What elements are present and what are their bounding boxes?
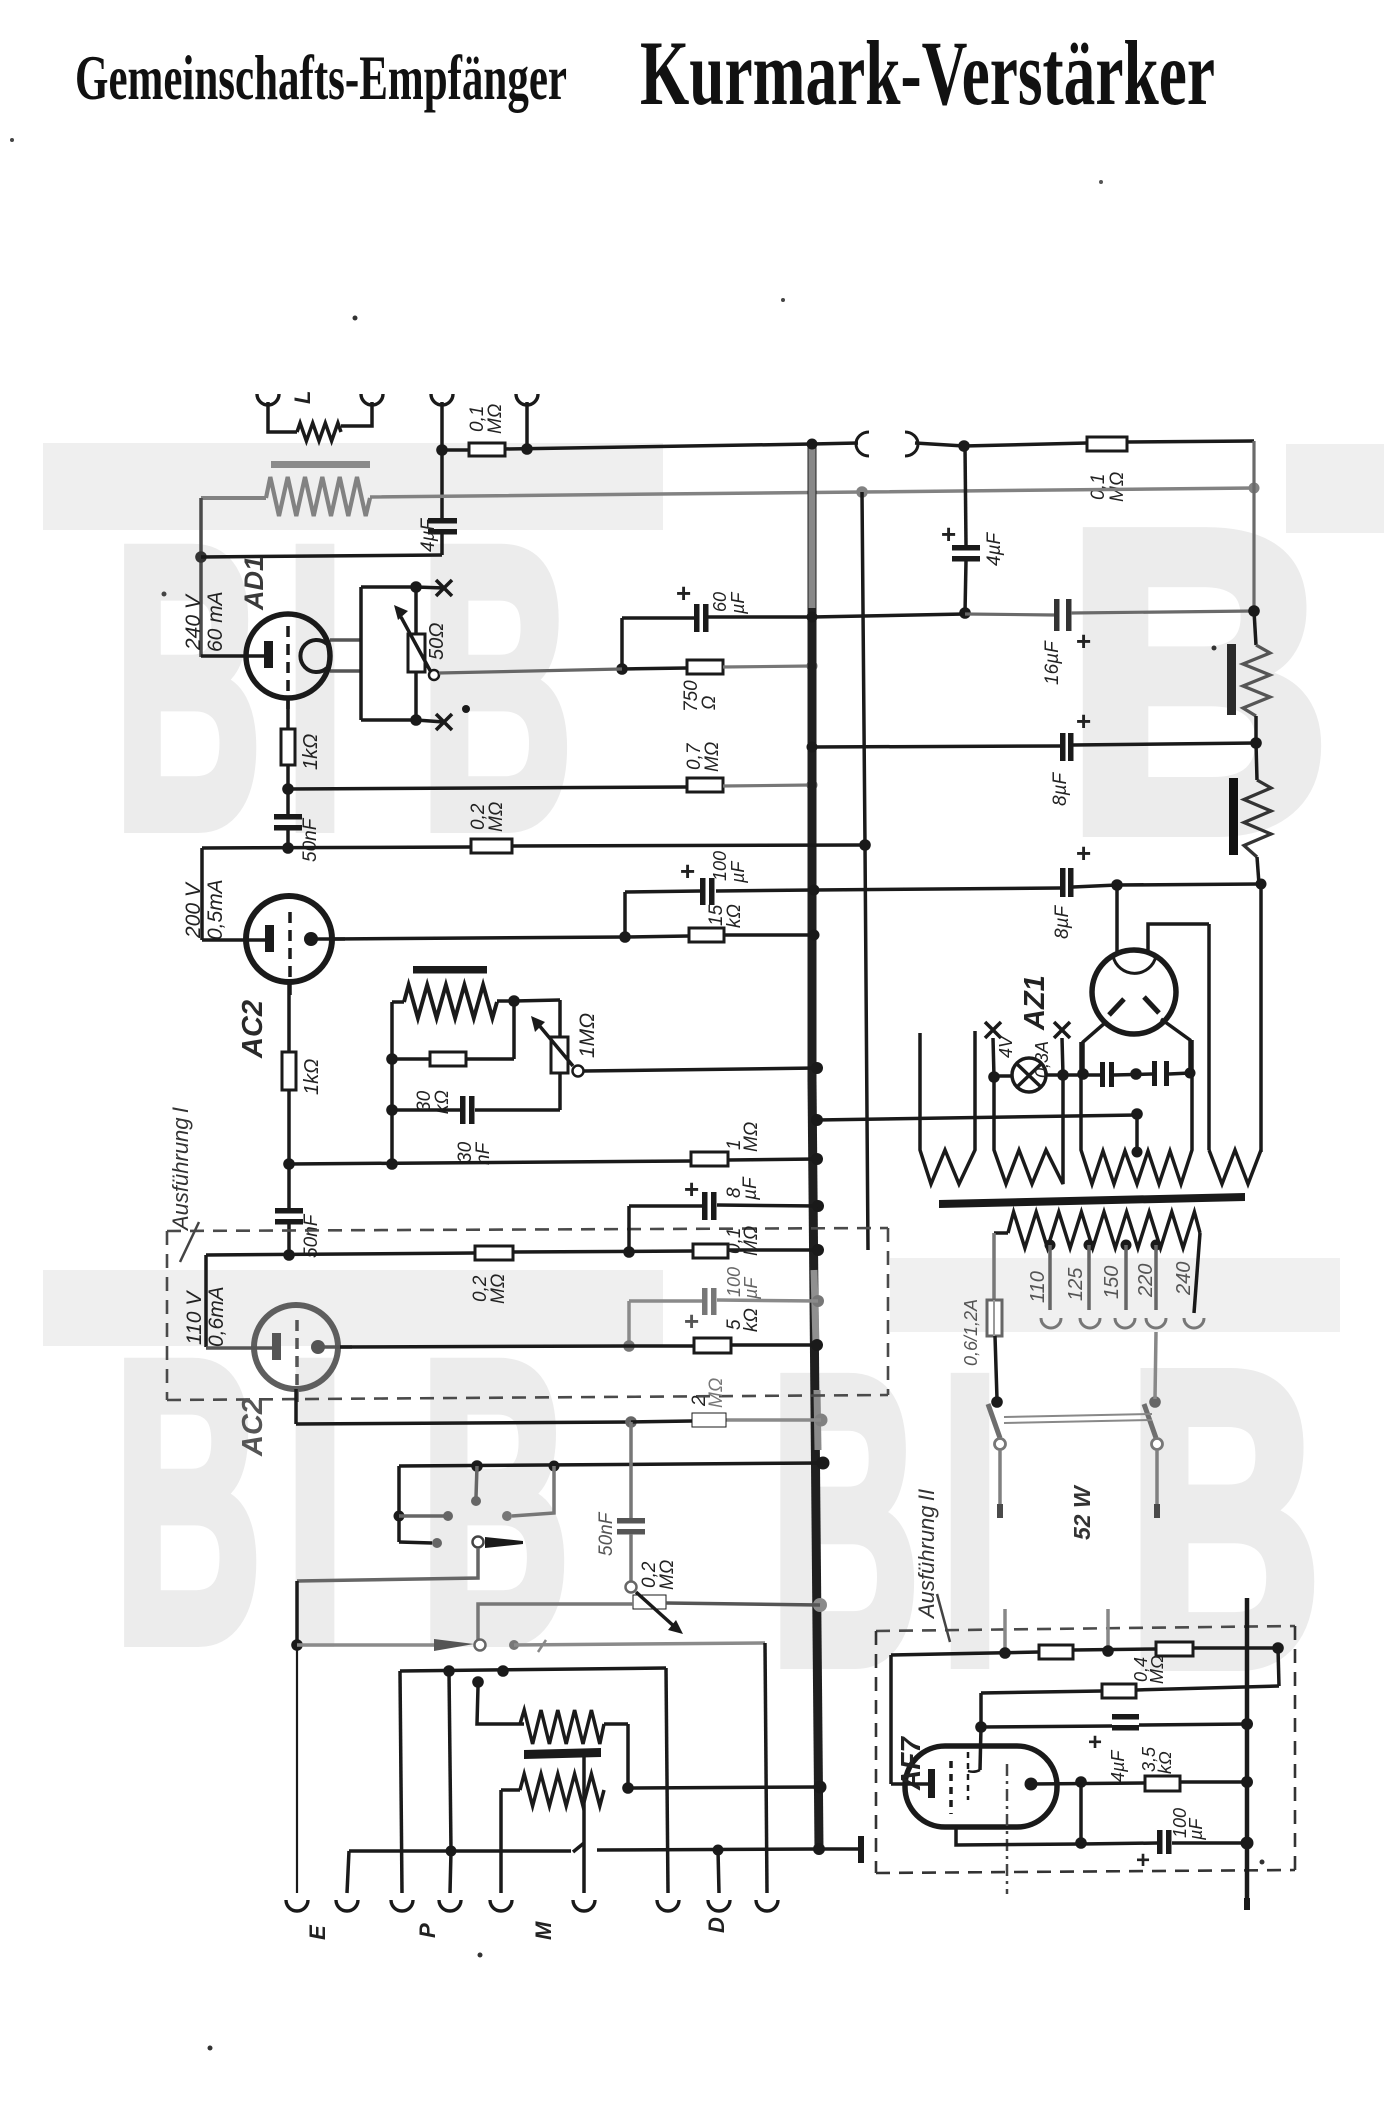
pot wiper circle: [429, 670, 439, 680]
terminal cup x668: [657, 1900, 679, 1911]
wire: [287, 1090, 291, 1164]
output transformer primary: [266, 477, 370, 516]
capacitor 100uF a: [700, 878, 706, 905]
svg-text:150: 150: [1101, 1266, 1123, 1299]
tick: [538, 1640, 546, 1652]
node: [1185, 1068, 1196, 1079]
wire: [1180, 1780, 1247, 1784]
wire row 1421: [631, 1421, 692, 1422]
wire: [287, 1164, 291, 1208]
capacitor 8uF b: [1060, 868, 1066, 897]
wire: [359, 587, 363, 720]
svg-text:MΩ: MΩ: [706, 1378, 727, 1408]
svg-text:+: +: [680, 856, 695, 886]
svg-text:1MΩ: 1MΩ: [576, 1013, 599, 1058]
resistor 15 kOhm: [689, 928, 724, 942]
lamp 4V 0,3A: [1012, 1058, 1046, 1092]
svg-text:kΩ: kΩ: [724, 904, 745, 928]
dashed box Ausfuehrung II: [876, 1626, 1295, 1631]
wire: [965, 446, 966, 545]
wire AF7 left column: [889, 1655, 893, 1784]
svg-text:Ω: Ω: [699, 696, 720, 710]
capacitor 8uF a: [1060, 733, 1066, 761]
capacitor 60uF: [694, 604, 700, 632]
wire gray row 1645 right: [514, 1643, 765, 1645]
bus node 1250: [812, 1244, 824, 1256]
capacitor 100uF AF7: [1157, 1830, 1163, 1854]
node: [1102, 1645, 1114, 1657]
wire: [718, 1850, 719, 1893]
wire: [1062, 1038, 1063, 1075]
svg-text:1kΩ: 1kΩ: [300, 734, 322, 770]
bus node 617: [807, 612, 818, 623]
wire 60uF corner: [620, 618, 624, 669]
field coil bar a: [1227, 644, 1236, 715]
primary winding a: [520, 1710, 604, 1744]
svg-text:50nF: 50nF: [301, 1213, 322, 1258]
resistor vertical b: [1244, 780, 1271, 857]
node: [386, 1104, 398, 1116]
node: [958, 440, 970, 452]
wire gray row 494: [370, 488, 1254, 497]
terminal cup x584: [573, 1900, 595, 1911]
tube AC2: [246, 896, 332, 982]
AF7 grid dashes: [949, 1761, 953, 1814]
switch lever left: [988, 1404, 1000, 1438]
wire: [1193, 1646, 1276, 1650]
potentiometer 0,2 MOhm: [633, 1595, 666, 1609]
svg-text:+: +: [941, 519, 956, 549]
wire AC2II anode row: [340, 1346, 629, 1347]
node: [1130, 1068, 1142, 1080]
switch linkage: [1004, 1414, 1152, 1417]
crossover arcs: [856, 432, 869, 456]
speck: [1099, 180, 1103, 184]
node big: [1241, 1718, 1253, 1730]
resistor 0,1 MOhm II: [693, 1244, 728, 1258]
svg-text:µF: µF: [740, 1176, 761, 1201]
wire: [525, 402, 529, 449]
resistor AF7 a: [1039, 1645, 1073, 1659]
potentiometer 1MOhm: [551, 1037, 568, 1073]
svg-text:kΩ: kΩ: [1155, 1751, 1175, 1774]
chassis ground bar: [858, 1836, 864, 1863]
wire: [979, 1693, 983, 1727]
resistor 5 kOhm: [694, 1338, 731, 1353]
svg-text:MΩ: MΩ: [485, 404, 506, 434]
wire: [392, 1108, 460, 1112]
node: [1057, 1069, 1069, 1081]
wire: [1254, 611, 1256, 645]
wire: [915, 443, 964, 446]
bus node 1120: [811, 1114, 823, 1126]
wire row 888: [814, 888, 1060, 890]
svg-text:8µF: 8µF: [1050, 771, 1071, 806]
wire: [414, 672, 418, 720]
wire row 1851: [349, 1849, 571, 1853]
wire: [995, 1336, 997, 1399]
resistor 750 Ohm: [687, 660, 723, 674]
svg-text:240 V: 240 V: [182, 593, 205, 651]
node: [991, 1396, 1003, 1408]
wire AF7 top row: [891, 1652, 1039, 1655]
node: [1249, 483, 1260, 494]
wire: [286, 830, 290, 848]
resistor 2 MOhm: [692, 1413, 726, 1427]
resistor 0,1MOhm top-right: [1087, 437, 1127, 451]
node: [1256, 879, 1267, 890]
wire: [514, 1000, 560, 1001]
wire pot right lead: [666, 1603, 820, 1605]
resistor 30 kOhm: [430, 1052, 466, 1066]
svg-text:+: +: [1076, 838, 1091, 868]
wire AF7 bottom lead: [956, 1827, 1081, 1845]
svg-text:+: +: [684, 1174, 699, 1204]
wire: [287, 1224, 291, 1255]
node: [291, 1639, 303, 1651]
wire: [414, 587, 418, 634]
svg-text:200 V: 200 V: [182, 881, 205, 939]
node: [1149, 1396, 1161, 1408]
bus node 1605: [813, 1598, 827, 1612]
wire: [627, 1301, 631, 1346]
wire row 1670: [400, 1668, 666, 1671]
node: [1250, 737, 1262, 749]
svg-text:B: B: [1064, 442, 1332, 922]
wire: [1073, 743, 1256, 745]
svg-text:+: +: [1136, 1847, 1150, 1874]
wire: [1155, 1332, 1156, 1399]
wire: [1117, 884, 1261, 885]
wire pot to bus: [584, 1068, 817, 1071]
svg-text:+: +: [676, 578, 691, 608]
node: [446, 1846, 457, 1857]
wire 110V rail: [204, 1255, 208, 1347]
node: [394, 1511, 405, 1522]
svg-text:+: +: [1076, 626, 1091, 656]
capacitor 4uF left: [428, 518, 457, 524]
wire AZ1 second anode: [1148, 924, 1209, 953]
terminal cup x402: [391, 1900, 413, 1911]
wire grid lead: [980, 1727, 981, 1770]
terminal cup x767: [756, 1900, 778, 1911]
mains core bar: [939, 1193, 1245, 1208]
svg-text:µF: µF: [728, 592, 748, 615]
svg-text:100: 100: [710, 851, 730, 881]
wire row 747: [812, 746, 1060, 747]
contact dot: [471, 1496, 481, 1506]
resistor 3,5 kOhm: [1145, 1776, 1180, 1791]
wire right column: [1252, 441, 1255, 613]
AF7 axis dashdot: [1006, 1764, 1009, 1894]
AC2II anode pin: [311, 1340, 325, 1354]
resistor 0,1MOhm top-left: [469, 443, 505, 456]
node: [386, 1158, 398, 1170]
switch lever right: [1144, 1404, 1156, 1438]
wire stub gray b: [1106, 1609, 1110, 1652]
svg-text:MΩ: MΩ: [741, 1226, 762, 1256]
svg-text:0,5mA: 0,5mA: [204, 879, 227, 940]
heater winding 3: [1081, 1040, 1192, 1184]
wire corner 100uF: [623, 892, 627, 937]
AD1 grid dashes: [286, 626, 290, 712]
wire: [286, 765, 290, 789]
wire: [993, 1038, 994, 1077]
wire wiper to 750: [439, 669, 622, 673]
wire: [622, 616, 694, 620]
wire: [440, 450, 444, 518]
wire row 1346: [629, 1344, 694, 1348]
node: [521, 443, 533, 455]
wire: [1172, 1841, 1247, 1845]
bus node 1159: [811, 1153, 823, 1165]
svg-text:E: E: [305, 1924, 330, 1940]
wire row 785: [288, 787, 687, 789]
node big: [1241, 1776, 1253, 1788]
grid bar: [413, 966, 487, 974]
capacitor 4uF right: [952, 545, 980, 551]
wire row 1164: [289, 1161, 691, 1164]
heater winding 2: [994, 1075, 1063, 1184]
tube AF7: [905, 1746, 1057, 1827]
wire: [361, 585, 416, 589]
fuse 0,6/1,2A: [987, 1300, 1002, 1336]
wire: [512, 1001, 516, 1059]
capacitor 4uF AF7: [1112, 1714, 1139, 1720]
svg-text:16µF: 16µF: [1042, 640, 1063, 685]
node: [616, 663, 628, 675]
resistor 1 MOhm: [691, 1152, 728, 1166]
wire anode leads AD1: [330, 638, 361, 642]
wire: [347, 1851, 349, 1893]
wire row2: [981, 1691, 1102, 1693]
svg-text:50nF: 50nF: [300, 817, 321, 862]
wire: [1079, 1782, 1083, 1843]
capacitor 8uF c: [702, 1192, 708, 1220]
terminal 125: [1080, 1318, 1100, 1328]
svg-text:60: 60: [710, 592, 730, 612]
secondary winding a: [520, 1774, 604, 1806]
pot wiper circle: [573, 1066, 584, 1077]
node: [859, 839, 871, 851]
node big: [1241, 1837, 1254, 1850]
terminal L right: [361, 394, 383, 405]
wire tap 220: [1154, 1245, 1158, 1310]
wire corner: [399, 1542, 432, 1543]
wire: [392, 1000, 404, 1004]
wire speaker leads: [268, 402, 297, 432]
svg-text:MΩ: MΩ: [657, 1560, 678, 1590]
AD1 cathode: [201, 654, 266, 658]
node: [282, 783, 294, 795]
wire: [625, 936, 689, 937]
node: [497, 1665, 509, 1677]
wire: [294, 1389, 298, 1424]
AC2 cathode: [202, 938, 266, 942]
wire: [994, 1231, 1008, 1235]
svg-text:MΩ: MΩ: [1147, 1655, 1167, 1684]
wire blade tail: [297, 1548, 478, 1581]
bus node 1345: [811, 1339, 823, 1351]
svg-text:MΩ: MΩ: [486, 802, 507, 832]
core bar: [524, 1748, 601, 1759]
terminal cup x347: [336, 1900, 358, 1911]
svg-text:B: B: [114, 464, 262, 911]
capacitor 30nF: [460, 1096, 466, 1124]
node: [508, 995, 520, 1007]
node: [436, 444, 448, 456]
tube AD1: [246, 614, 330, 698]
wire: [812, 614, 965, 617]
wire heater tap: [1135, 1116, 1139, 1152]
svg-text:B: B: [770, 1291, 920, 1749]
wire tap 150: [1124, 1245, 1128, 1310]
wire row 1117: [817, 1115, 1137, 1120]
svg-text:Ausführung II: Ausführung II: [914, 1489, 939, 1620]
node: [622, 1782, 634, 1794]
wire: [440, 534, 444, 555]
svg-text:kΩ: kΩ: [741, 1308, 762, 1332]
resistor 1kOhm AC2: [282, 1052, 296, 1090]
speck: [1212, 646, 1217, 651]
svg-text:MΩ: MΩ: [741, 1122, 762, 1152]
svg-text:µF: µF: [741, 1277, 761, 1300]
hop tick: [573, 1843, 584, 1852]
wire: [1071, 611, 1254, 613]
wire: [450, 1851, 451, 1893]
heater winding 4: [1209, 1150, 1261, 1184]
svg-text:60 mA: 60 mA: [204, 591, 227, 652]
wire: [1254, 716, 1258, 743]
wire lamp row: [999, 1074, 1012, 1078]
AC2 grid dashes: [288, 912, 292, 995]
svg-text:1kΩ: 1kΩ: [301, 1059, 323, 1095]
bus node 1787: [814, 1781, 827, 1794]
speck: [208, 2046, 213, 2051]
wire tap 110: [1048, 1245, 1052, 1310]
transformer core bar: [271, 461, 370, 468]
svg-text:110: 110: [1027, 1271, 1049, 1303]
contact dot: [509, 1640, 519, 1650]
wire E column: [295, 1581, 299, 1645]
svg-text:220: 220: [1135, 1264, 1157, 1298]
resistor AF7 b: [1156, 1642, 1193, 1656]
node: [619, 931, 631, 943]
wire: [965, 561, 966, 613]
terminal 150: [1115, 1318, 1135, 1328]
x contact: [1054, 1022, 1070, 1038]
node: [1077, 1068, 1089, 1080]
speck: [10, 138, 14, 142]
terminal 240: [1184, 1318, 1204, 1328]
capacitor 50nF c: [617, 1518, 645, 1524]
node: [386, 1053, 398, 1065]
wire: [501, 1788, 520, 1792]
contact dot: [432, 1538, 442, 1548]
x contact: [436, 580, 452, 596]
svg-text:110 V: 110 V: [183, 1290, 206, 1345]
node: [625, 1416, 637, 1428]
bus node 1463: [817, 1457, 830, 1470]
node: [975, 1721, 987, 1733]
AF7 cathode: [891, 1782, 928, 1786]
speaker coil: [297, 423, 341, 441]
node: [195, 551, 207, 563]
svg-text:MΩ: MΩ: [488, 1274, 509, 1304]
wire: [965, 614, 1054, 615]
wire: [390, 1002, 394, 1164]
svg-text:52 W: 52 W: [1069, 1484, 1095, 1540]
wire left rail 240V: [199, 498, 203, 657]
node: [1248, 605, 1260, 617]
wire pot left lead: [478, 1604, 633, 1640]
svg-text:Ausführung I: Ausführung I: [168, 1107, 193, 1232]
wire: [666, 1668, 668, 1893]
svg-text:240: 240: [1173, 1262, 1195, 1296]
speck: [478, 1953, 483, 1958]
AC2II cathode: [206, 1346, 273, 1350]
terminal cup x450: [439, 1900, 461, 1911]
resistor 1kOhm AD1: [281, 729, 295, 765]
contact dot: [502, 1511, 512, 1521]
node: [443, 1665, 455, 1677]
node: [1075, 1837, 1087, 1849]
node: [410, 714, 422, 726]
svg-text:D: D: [704, 1917, 729, 1933]
speck: [1260, 1860, 1265, 1865]
wire vertical 865: [862, 492, 868, 1250]
svg-text:0,6mA: 0,6mA: [205, 1286, 228, 1347]
node: [1132, 1147, 1143, 1158]
node: [807, 780, 818, 791]
switch blade B: [434, 1639, 474, 1651]
capacitor heater a: [1100, 1062, 1105, 1087]
node: [283, 1158, 295, 1170]
wire: [1194, 1233, 1200, 1313]
pot wiper circle 02M: [626, 1582, 637, 1593]
wire AZ1 top cap: [1115, 885, 1119, 954]
node: [623, 1246, 635, 1258]
wire row 1255: [206, 1253, 475, 1255]
wire row 447: [442, 448, 469, 452]
switch blade A: [473, 1537, 484, 1548]
node tap 125: [1084, 1240, 1095, 1251]
node: [410, 581, 422, 593]
node: [959, 607, 971, 619]
bus node 1068: [811, 1062, 823, 1074]
AF7 grid2 hook: [968, 1770, 980, 1772]
wire: [1256, 743, 1257, 780]
resistor 0,2 MOhm II: [475, 1246, 513, 1260]
AF7 anode pin: [1025, 1778, 1038, 1791]
field coil bar b: [1229, 778, 1238, 855]
svg-text:8µF: 8µF: [1052, 904, 1073, 939]
wire M column: [582, 1757, 586, 1893]
wire gray row 1645: [297, 1643, 434, 1647]
node: [999, 1647, 1011, 1659]
svg-text:AC2: AC2: [237, 1398, 269, 1457]
pot arrow: [636, 1592, 676, 1628]
svg-text:µF: µF: [1186, 1818, 1206, 1841]
node: [856, 486, 868, 498]
terminal cup x297: [286, 1900, 308, 1911]
wire P column: [400, 1671, 402, 1893]
wire: [1257, 857, 1259, 884]
wire tap 125: [1087, 1245, 1091, 1310]
node: [1131, 1108, 1143, 1120]
wire: [812, 443, 858, 444]
wire thick right column: [1245, 1598, 1250, 1906]
